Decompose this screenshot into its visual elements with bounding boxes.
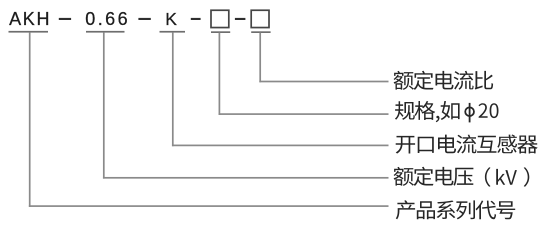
svg-text:0.66: 0.66 (85, 9, 127, 29)
svg-text:K: K (165, 9, 177, 29)
svg-text:AKH: AKH (9, 9, 49, 29)
